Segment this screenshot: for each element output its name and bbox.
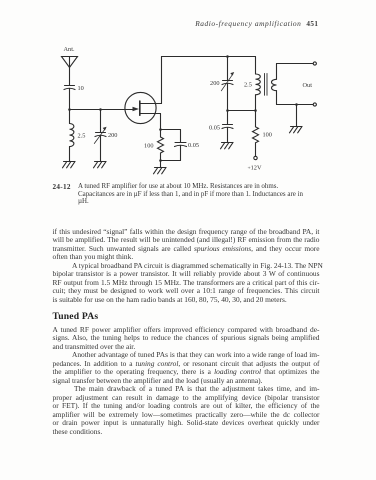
svg-text:2.5: 2.5 xyxy=(244,82,252,89)
svg-text:10: 10 xyxy=(78,85,84,92)
svg-text:2.5: 2.5 xyxy=(78,133,86,140)
svg-text:Ant.: Ant. xyxy=(64,46,75,53)
svg-text:0.05: 0.05 xyxy=(188,142,199,149)
svg-text:100: 100 xyxy=(263,132,272,139)
svg-text:100: 100 xyxy=(144,143,153,150)
svg-text:Out: Out xyxy=(303,82,313,89)
svg-text:200: 200 xyxy=(108,132,117,139)
svg-text:0.05: 0.05 xyxy=(209,125,220,132)
svg-text:+12V: +12V xyxy=(248,165,262,172)
svg-text:200: 200 xyxy=(210,80,219,87)
